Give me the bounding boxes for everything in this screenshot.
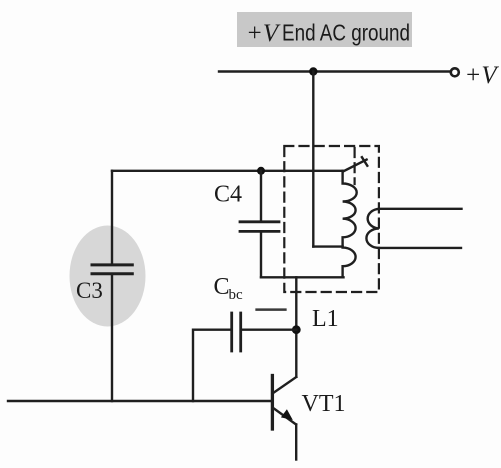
wire secondary bottom lead — [379, 247, 461, 249]
wire tank bottom horizontal — [261, 276, 344, 278]
wire top supply rail — [219, 70, 449, 72]
VT1 base bar — [271, 376, 274, 430]
highlight ellipse around C3 — [70, 226, 146, 327]
VT1 emitter arrowhead — [281, 409, 293, 420]
svg-text:VT1: VT1 — [302, 391, 346, 417]
wire supply to coil tap vertical — [312, 72, 314, 247]
dashed shield box around transformer — [284, 146, 379, 292]
VT1 collector — [273, 377, 297, 394]
svg-text:+V: +V — [246, 20, 281, 47]
terminal +V — [451, 68, 459, 76]
transistor VT1 — [272, 376, 296, 460]
svg-text:+V: +V — [465, 62, 500, 89]
svg-text:C4: C4 — [214, 182, 242, 208]
svg-text:bc: bc — [229, 287, 244, 303]
junction top rail to L1 tap feed — [309, 67, 317, 75]
trimmer arrow on L1 — [343, 157, 368, 171]
capacitor C3 — [92, 265, 132, 274]
minus mark — [257, 308, 286, 311]
wire L1 bottom to collector — [295, 277, 297, 377]
junction collector / Cbc node — [292, 325, 301, 334]
wire Cbc right lead — [241, 329, 297, 331]
svg-text:C3: C3 — [76, 278, 103, 303]
node +V label box — [237, 12, 412, 47]
capacitor C4 — [240, 222, 279, 232]
wire C3 bottom lead — [111, 274, 113, 401]
wire base rail bottom — [8, 400, 271, 402]
svg-text:C: C — [214, 274, 230, 300]
svg-text:End AC ground: End AC ground — [282, 20, 410, 46]
dashed adjuster line — [354, 148, 356, 184]
svg-text:L1: L1 — [312, 306, 339, 332]
wire C3 top lead — [111, 171, 113, 264]
capacitor Cbc — [232, 313, 241, 351]
inductor secondary winding — [366, 209, 378, 248]
wire coil tap horizontal — [313, 245, 342, 247]
VT1 emitter — [273, 408, 296, 425]
wire base-left horizontal (C3 top to coil top) — [112, 170, 343, 172]
VT1 emitter lead — [295, 424, 297, 459]
wire C4 bottom lead — [260, 231, 262, 277]
inductor L1 primary winding — [343, 171, 357, 277]
wire secondary top lead — [379, 208, 462, 210]
wire Cbc left lead — [193, 330, 232, 401]
wire C4 top lead — [260, 171, 262, 222]
junction C4 top — [257, 167, 265, 175]
